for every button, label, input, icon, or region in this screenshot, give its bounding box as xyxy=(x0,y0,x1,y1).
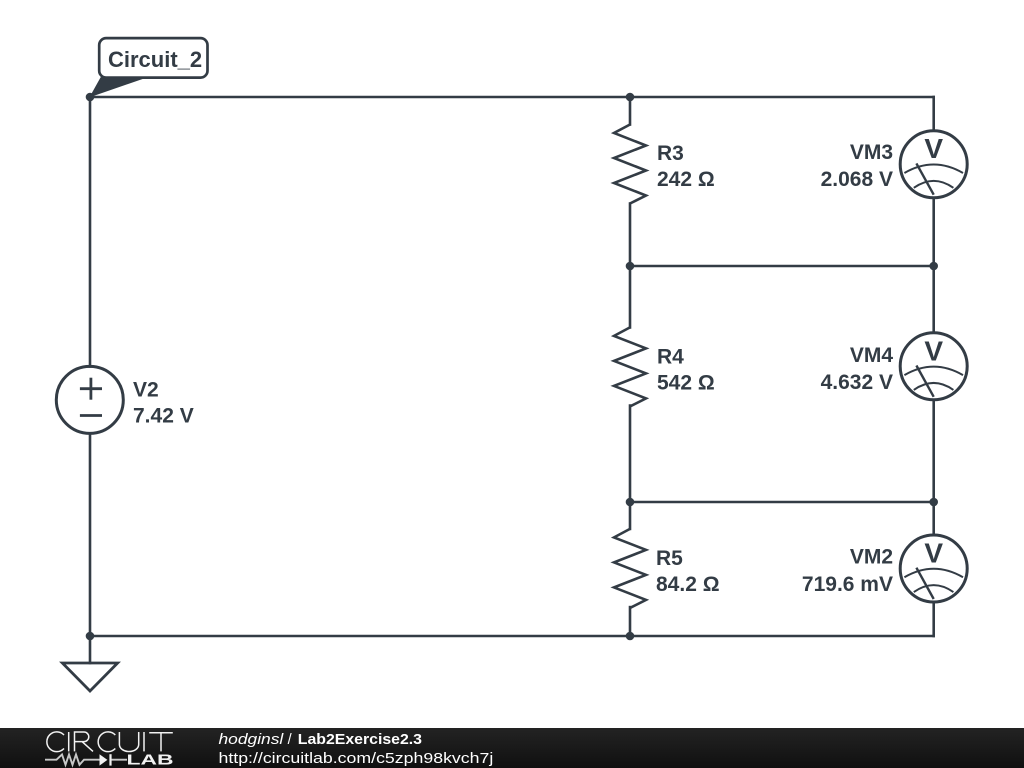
svg-text:http://circuitlab.com/c5zph98k: http://circuitlab.com/c5zph98kvch7j xyxy=(219,751,494,767)
svg-text:LAB: LAB xyxy=(127,752,174,768)
label R3 value xyxy=(657,142,715,191)
footer title text xyxy=(219,732,494,767)
voltmeter VM4 xyxy=(900,333,967,400)
svg-text:VM3: VM3 xyxy=(850,141,893,164)
svg-text:VM4: VM4 xyxy=(850,344,894,367)
wire middle rail R4 leads xyxy=(629,266,632,327)
svg-text:7.42 V: 7.42 V xyxy=(133,405,194,428)
svg-text:242 Ω: 242 Ω xyxy=(657,168,715,191)
callout Circuit_2 xyxy=(91,38,208,96)
label R5 value xyxy=(656,547,720,596)
resistor R5 xyxy=(614,529,646,608)
label R4 value xyxy=(657,346,715,395)
label VM3 value xyxy=(821,141,893,191)
node dot row3 middle xyxy=(626,498,635,507)
svg-text:719.6 mV: 719.6 mV xyxy=(802,573,893,596)
wire top rail node A to top-right corner xyxy=(90,96,934,99)
footer bar xyxy=(0,728,1024,768)
label VM4 value xyxy=(821,344,894,394)
wire row3 (R4/R5 junction to VM4/VM2 junction) xyxy=(630,501,934,504)
label V2 value xyxy=(133,379,194,428)
svg-text:Circuit_2: Circuit_2 xyxy=(108,47,202,72)
node dot top middle xyxy=(626,93,635,102)
wire middle rail R3 leads xyxy=(629,97,632,125)
resistor R3 xyxy=(614,125,646,204)
wire ground lead xyxy=(89,636,92,663)
svg-text:84.2 Ω: 84.2 Ω xyxy=(656,573,720,596)
wire right rail VM2 leads xyxy=(932,502,935,535)
svg-text:2.068 V: 2.068 V xyxy=(821,168,893,191)
svg-text:VM2: VM2 xyxy=(850,546,893,569)
svg-text:R4: R4 xyxy=(657,346,684,369)
wire left rail upper (node A to V2 top) xyxy=(89,97,92,366)
wire left rail lower (V2 bottom to bottom rail) xyxy=(89,433,92,636)
svg-text:542 Ω: 542 Ω xyxy=(657,372,715,395)
ground xyxy=(62,663,117,691)
wire middle rail R5 leads xyxy=(629,502,632,529)
voltmeter VM3 xyxy=(900,131,967,198)
logo CIRCUIT wordmark xyxy=(47,732,173,752)
svg-text:4.632 V: 4.632 V xyxy=(821,371,893,394)
svg-text:V: V xyxy=(924,335,943,366)
label VM2 value xyxy=(802,546,893,597)
node A dot (top-left) xyxy=(86,93,95,102)
node dot row2 right xyxy=(929,262,938,271)
wire right rail VM4 leads xyxy=(932,266,935,333)
svg-text:V: V xyxy=(924,133,943,164)
logo resistor-diode glyph and LAB xyxy=(45,752,174,768)
svg-text:V2: V2 xyxy=(133,379,159,402)
svg-text:hodginsl: hodginsl xyxy=(219,732,285,748)
node dot bottom-left xyxy=(86,632,95,641)
node dot row3 right xyxy=(929,498,938,507)
wire right rail VM3 leads xyxy=(932,97,935,131)
node dot row2 middle xyxy=(626,262,635,271)
voltage source V2 xyxy=(56,366,123,433)
wire row2 (R3/R4 junction to VM3/VM4 junction) xyxy=(630,265,934,268)
svg-text:Lab2Exercise2.3: Lab2Exercise2.3 xyxy=(298,732,422,748)
svg-text:V: V xyxy=(924,538,943,569)
node dot bottom middle xyxy=(626,632,635,641)
svg-text:R5: R5 xyxy=(656,547,683,570)
voltmeter VM2 xyxy=(900,535,967,602)
wire bottom rail xyxy=(90,635,934,638)
resistor R4 xyxy=(614,327,646,406)
svg-text:R3: R3 xyxy=(657,142,684,165)
